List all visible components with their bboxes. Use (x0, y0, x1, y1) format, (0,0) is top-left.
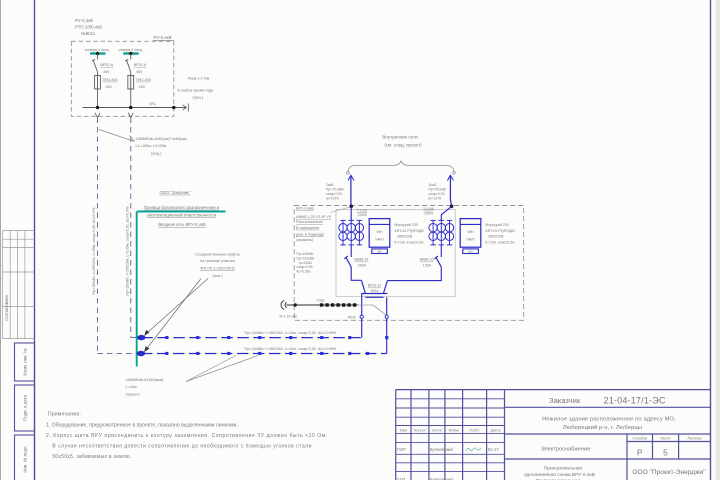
rotated label feeder 2 (125, 206, 129, 296)
feeder cable 2 (vertical dashed) (131, 118, 142, 338)
disconnect switch QS1 (92, 54, 98, 73)
title block grid (396, 390, 711, 480)
svg-text:160А: 160А (358, 264, 367, 268)
label Граница балансового разграничения (144, 205, 220, 227)
svg-text:АRT-03 РQRSIДN: АRT-03 РQRSIДN (394, 229, 424, 233)
svg-text:ВР32-31: ВР32-31 (368, 284, 381, 288)
svg-text:Изм: Изм (400, 428, 408, 433)
svg-text:Подп. и дата: Подп. и дата (23, 395, 28, 421)
svg-text:380/220В: 380/220В (488, 235, 504, 239)
fuse FU1 ПН2-400 (95, 72, 101, 108)
svg-text:Соединительные муфты: Соединительные муфты (195, 252, 240, 257)
label CT2 Т-0,66 150/5 (423, 207, 434, 216)
svg-text:Взам. инв. №: Взам. инв. № (23, 348, 28, 375)
svg-text:Лист: Лист (659, 436, 671, 441)
svg-text:VArh: VArh (375, 237, 384, 242)
svg-text:Бучковский: Бучковский (430, 447, 454, 452)
svg-text:Кол.уч: Кол.уч (414, 428, 426, 433)
project name line 1 (542, 417, 676, 423)
changeover switch QS3 (trapezoid) (361, 280, 387, 297)
riser 1 load label (326, 183, 344, 201)
label РУ-0,4кВ РТП-10/0,4кВ №9011 (75, 18, 102, 36)
dashed enclosure ВРУ-0,4кВ (294, 206, 524, 321)
wire bar to outlet 2 (386, 297, 388, 315)
label сущ. (149, 102, 156, 106)
svg-text:5-7,5А, класс0,5S: 5-7,5А, класс0,5S (485, 240, 515, 244)
supply cable lower (dashed blue with marks) (141, 352, 387, 355)
svg-text:L=10м: L=10м (126, 385, 138, 389)
svg-text:(сущ.): (сущ.) (193, 95, 204, 99)
svg-text:на границе участка: на границе участка (200, 258, 236, 263)
svg-text:Р: Р (637, 448, 643, 458)
svg-text:L1=105м, L2=95м: L1=105м, L2=95м (136, 144, 167, 148)
label Заказчик (549, 396, 581, 405)
svg-text:Рр=150кВт, I=265/26А, L=10м, c: Рр=150кВт, I=265/26А, L=10м, cosφ=0,92, … (245, 331, 337, 335)
svg-text:2каб.: 2каб. (326, 183, 334, 187)
svg-text:кВт: кВт (377, 250, 382, 254)
wire QF2 down (387, 267, 441, 281)
label R ≤ 10 Ом (280, 315, 298, 319)
svg-text:ВА88-33: ВА88-33 (355, 258, 369, 262)
svg-text:РУ-0,4кВ: РУ-0,4кВ (154, 35, 172, 40)
svg-text:150/5: 150/5 (424, 212, 433, 216)
PE bus wire (83, 107, 187, 109)
cable coupling 1 (муфта) (137, 335, 145, 340)
svg-text:Рр=150кВт, I=265/26А, L=10м, c: Рр=150кВт, I=265/26А, L=10м, cosφ=0,92, … (245, 347, 337, 351)
frame right border line (710, 0, 712, 480)
label Внутренние сети (382, 135, 422, 148)
riser 1 (to internal network) (348, 175, 354, 206)
label load data block (297, 252, 315, 274)
label Электроснабжение (541, 447, 591, 453)
svg-text:150/5: 150/5 (358, 213, 367, 217)
svg-text:Wh: Wh (377, 229, 383, 234)
svg-text:Внутренние сети: Внутренние сети (382, 135, 418, 140)
svg-text:2АВБбШв-4х50(ож)+4х50(мк),: 2АВБбШв-4х50(ож)+4х50(мк), (136, 137, 188, 141)
svg-text:400: 400 (103, 70, 109, 74)
svg-text:cosφ=0,93: cosφ=0,93 (326, 192, 342, 196)
svg-text:Т-0,66: Т-0,66 (423, 207, 434, 211)
svg-text:400: 400 (136, 70, 142, 74)
svg-text:Электроснабжение: Электроснабжение (541, 447, 591, 453)
svg-text:04.17: 04.17 (488, 447, 500, 452)
svg-text:ВРУ-0,4кВ: ВРУ-0,4кВ (296, 207, 314, 211)
meter PI1 Меркурий 230 (369, 219, 390, 254)
cable coupling 2 (муфта) (137, 351, 145, 356)
svg-text:2каб.: 2каб. (429, 183, 437, 187)
header labels Изм..Дата (400, 428, 502, 433)
label Согласовано (rotated) (4, 294, 9, 321)
svg-text:№9011: №9011 (81, 31, 96, 36)
wire CT1 to QF1 (350, 245, 352, 257)
svg-text:Инв. № подл.: Инв. № подл. (23, 445, 28, 472)
svg-text:Заказчик: Заказчик (549, 396, 581, 405)
sheet number 5 (663, 448, 668, 458)
approvals table grid (left margin) (3, 231, 35, 339)
arrow to coupling 1 (144, 279, 208, 337)
svg-text:Рр=75,0кВт: Рр=75,0кВт (326, 188, 344, 192)
label Меркурий 230 (2) (485, 223, 515, 244)
wire outlet2 to cable down-turn (385, 318, 388, 353)
node J2 (129, 106, 132, 109)
wire CT2 to QF2 (440, 245, 442, 257)
stage value Р (637, 448, 643, 458)
svg-text:cosφ=0,93: cosφ=0,93 (297, 265, 313, 269)
sheet left edge (0, 0, 1, 480)
svg-text:21-04-17/1-ЭС: 21-04-17/1-ЭС (604, 395, 666, 405)
label ВРУ-0,4кВ АВМ5 block (296, 207, 331, 242)
svg-text:эксплуатационной ответственнос: эксплуатационной ответственности (147, 212, 217, 217)
svg-text:ВА88-33: ВА88-33 (420, 258, 434, 262)
svg-text:кВт: кВт (468, 250, 473, 254)
document code 21-04-17/1-ЭС (604, 395, 666, 405)
rotated label feeder 1 (92, 207, 96, 295)
svg-text:Граница балансового разграниче: Граница балансового разграничения и (144, 205, 220, 210)
node riser1 entry (349, 205, 353, 209)
title block row lines (left grid) (396, 399, 505, 472)
side cell Подп. и дата (15, 385, 35, 431)
node bus1 (96, 52, 99, 55)
current transformer CT2 (429, 220, 454, 245)
leader from cabinet label (330, 207, 350, 213)
svg-text:(нов.): (нов.) (212, 273, 223, 278)
svg-text:(проект): (проект) (126, 393, 141, 397)
svg-text:Стадия: Стадия (632, 436, 647, 441)
svg-text:Подп.: Подп. (469, 428, 479, 433)
svg-text:250: 250 (139, 85, 145, 89)
feeder cable 1 (vertical dashed) (98, 118, 142, 354)
svg-text:Iр=137А: Iр=137А (429, 197, 442, 201)
arrow to coupling 2 (144, 279, 201, 353)
svg-text:Iр=253А: Iр=253А (299, 261, 312, 265)
supply cable upper (dashed blue with marks) (141, 336, 361, 339)
svg-text:РУ-0,4кВ: РУ-0,4кВ (75, 18, 93, 23)
busbar section 1 (teal) (90, 52, 106, 54)
PE grounding wire (287, 304, 358, 306)
side cell Инв. № подл. (15, 435, 35, 480)
svg-text:(заказать): (заказать) (296, 238, 313, 242)
svg-text:380/220В: 380/220В (397, 235, 413, 239)
svg-text:ПН2-400: ПН2-400 (103, 78, 118, 82)
sheet right edge shading (716, 0, 720, 480)
svg-text:Sр=161кВА: Sр=161кВА (297, 256, 315, 260)
svg-text:50х50х5, забиваемых в землю.: 50х50х5, забиваемых в землю. (52, 454, 131, 460)
label CT1 Т-0,66 150/5 (357, 208, 368, 217)
label ПН2-400 250 (2) (136, 78, 151, 89)
svg-text:5: 5 (663, 448, 668, 458)
svg-text:резерв 1 секц.: резерв 1 секц. (85, 48, 109, 52)
label ВР32-31 100А (368, 284, 381, 293)
label ВР32-А 400 (101, 63, 114, 74)
svg-text:5-7,5А, класс0,5S: 5-7,5А, класс0,5S (394, 240, 424, 244)
svg-text:Меркурий 230: Меркурий 230 (485, 223, 508, 227)
wire riser2 jog to CT2 (441, 206, 451, 220)
svg-text:Люберецкий р-н, г. Люберцы: Люберецкий р-н, г. Люберцы (563, 424, 642, 431)
main ground busbar ГЗШ (squares) (320, 303, 356, 306)
svg-text:PEN: PEN (348, 315, 356, 319)
label резерв 2 секц. (119, 48, 143, 52)
svg-text:Wh: Wh (468, 229, 474, 234)
svg-text:125А: 125А (423, 264, 432, 268)
boundary line (teal) horizontal (137, 211, 226, 213)
svg-text:ООО "Проект-Энерджи": ООО "Проект-Энерджи" (632, 469, 706, 476)
leader lines to feeders (99, 130, 135, 142)
svg-text:250: 250 (106, 85, 112, 89)
svg-text:АRT-03 РQRSIДN: АRT-03 РQRSIДN (485, 229, 515, 233)
notes text block (46, 412, 328, 461)
label PEN (348, 315, 356, 319)
svg-text:(см. след. проект): (см. след. проект) (384, 143, 422, 148)
svg-text:R ≤ 10 Ом.: R ≤ 10 Ом. (280, 315, 298, 319)
node ground/box edge (294, 303, 297, 306)
label ГЗШ (317, 298, 325, 303)
node J3 (172, 106, 175, 109)
svg-text:Принципиальная: Принципиальная (544, 465, 582, 471)
riser 2 (to internal network) (447, 175, 453, 206)
label cable type (bottom) (126, 378, 165, 397)
current transformer CT1 (339, 220, 364, 245)
svg-text:РТП-10/0,4кВ: РТП-10/0,4кВ (75, 25, 102, 30)
svg-text:VArh: VArh (466, 237, 475, 242)
disconnect switch QS2 (125, 54, 131, 73)
svg-text:Рр=150кВт, I=265/26А, L=95м, c: Рр=150кВт, I=265/26А, L=95м, cosφ=0,92, … (92, 207, 96, 295)
svg-text:Рр=75,0кВт: Рр=75,0кВт (429, 188, 447, 192)
svg-text:Лист: Лист (431, 428, 443, 433)
wire QF1 down (351, 267, 361, 280)
ground electrode symbol (281, 301, 287, 310)
label lower cable parameters (245, 347, 337, 351)
wire outlet1 to cable up-turn (361, 318, 363, 337)
label Меркурий 230 (1) (394, 223, 424, 244)
busbar section 2 (teal) (123, 52, 139, 54)
svg-text:АВМ5-1-25 У3 4Р У5: АВМ5-1-25 У3 4Р У5 (296, 215, 331, 219)
svg-text:4ПСТп-1-150/240-Б: 4ПСТп-1-150/240-Б (200, 265, 235, 270)
meter PI2 Меркурий 230 (460, 219, 481, 254)
svg-text:100А: 100А (371, 289, 380, 293)
svg-text:В любое время года: В любое время года (178, 89, 215, 93)
svg-text:Т-0,66: Т-0,66 (357, 208, 368, 212)
node J1 (96, 106, 99, 109)
svg-text:Рр=150кВт: Рр=150кВт (297, 252, 314, 256)
svg-text:ООО "Заказчик": ООО "Заказчик" (159, 190, 191, 195)
panel outline (grey) (336, 210, 455, 297)
svg-text:однолинейная схема ВРУ-0,4кВ.: однолинейная схема ВРУ-0,4кВ. (524, 471, 596, 478)
svg-text:Вводная сеть ВРУ-0,4кВ: Вводная сеть ВРУ-0,4кВ (158, 222, 205, 227)
svg-text:сущ.: сущ. (149, 102, 156, 106)
wire bar to outlet 1 (361, 294, 363, 316)
fuse FU2 ПН2-400 (128, 72, 134, 108)
partial bottom row (397, 477, 453, 480)
svg-text:дом. в подъезде: дом. в подъезде (296, 233, 324, 237)
svg-text:Расположенное: Расположенное (296, 220, 323, 224)
label РУ-0,4кВ (box corner, underlined) (153, 35, 174, 41)
svg-text:cosφ=0,93: cosφ=0,93 (429, 192, 445, 196)
label Соединительные муфты (195, 252, 240, 278)
cable exit arrow 1 (95, 113, 100, 118)
svg-text:Листов: Листов (686, 436, 701, 441)
PEN link wire (grey) (358, 305, 387, 315)
label ООО Заказчик (159, 190, 191, 195)
outlet circle 2 (385, 315, 388, 318)
label cable type 2АВБбШв (top) with leaders (136, 137, 188, 156)
svg-text:(сущ.): (сущ.) (151, 152, 162, 156)
node bus2 (129, 52, 132, 55)
project name line 2 (563, 424, 642, 431)
labels Стадия Лист Листов (632, 436, 701, 441)
svg-text:Rзаз ≤ 2 Ом: Rзаз ≤ 2 Ом (188, 77, 210, 81)
label резерв 1 секц. (85, 48, 109, 52)
leaders from bottom label to cables (186, 356, 258, 382)
label R≤2 Ом в любое время года (178, 77, 215, 100)
svg-text:№док: №док (449, 428, 460, 433)
svg-text:ВР32-А: ВР32-А (101, 63, 114, 67)
svg-text:резерв 2 секц.: резерв 2 секц. (119, 48, 143, 52)
label ВА88-33 125А (420, 258, 434, 268)
svg-text:В случае несоответствия довест: В случае несоответствия довести сопротив… (52, 444, 312, 450)
label ПН2-400 250 (103, 78, 118, 89)
svg-text:В помещении: В помещении (296, 226, 319, 230)
svg-text:Iр=137А: Iр=137А (326, 197, 339, 201)
bus end arrow with tick (183, 104, 189, 112)
side cell Взам. инв. № (15, 343, 35, 381)
label ВА88-33 160А (355, 258, 369, 268)
drawing title lines (524, 465, 596, 480)
label upper cable parameters (245, 331, 337, 335)
frame left border line (34, 0, 36, 480)
riser 2 load label (429, 183, 447, 201)
brace over risers (347, 161, 456, 174)
wire riser1 to CT1 (350, 206, 352, 220)
signature (teal) (466, 448, 481, 451)
row ГИП Бучковский (397, 447, 499, 452)
node riser2 entry (450, 205, 454, 209)
dashed enclosure РУ-0,4кВ (71, 41, 174, 116)
breaker QF2 ВА88-33 (434, 256, 441, 267)
svg-text:Меркурий 230: Меркурий 230 (394, 223, 417, 227)
svg-text:Рр=150кВт, I=265/26А, L=105м,: Рр=150кВт, I=265/26А, L=105м, cosφ=0,92,… (125, 206, 129, 296)
boundary line (teal) vertical (136, 212, 138, 367)
company ООО Проект-Энерджи (632, 469, 706, 476)
cable exit arrow 2 (128, 113, 133, 118)
label ВР32-А 400 (2) (134, 63, 147, 74)
outlet circle 1 (360, 315, 363, 318)
svg-text:ГИП: ГИП (397, 447, 406, 452)
svg-text:Дата: Дата (489, 428, 501, 433)
svg-text:Нежилое здание расположенное: Нежилое здание расположенное по адресу М… (542, 417, 676, 423)
svg-text:Согласовано: Согласовано (4, 294, 9, 321)
svg-text:2АВБбШв-4х150(мкв),: 2АВБбШв-4х150(мкв), (126, 378, 165, 382)
svg-text:Примечания:: Примечания: (48, 412, 81, 418)
svg-text:ПН2-400: ПН2-400 (136, 78, 151, 82)
svg-text:ВР32-А: ВР32-А (134, 63, 147, 67)
breaker QF1 ВА88-33 (344, 256, 351, 267)
svg-text:Кс=0,95о: Кс=0,95о (297, 270, 311, 274)
svg-text:2. Корпус щита ВРУ присоединит: 2. Корпус щита ВРУ присоединить к контур… (46, 433, 328, 439)
svg-text:ГЗШ: ГЗШ (317, 298, 325, 303)
svg-text:1. Оборудование, предусмотренн: 1. Оборудование, предусмотренное в проек… (46, 423, 238, 429)
